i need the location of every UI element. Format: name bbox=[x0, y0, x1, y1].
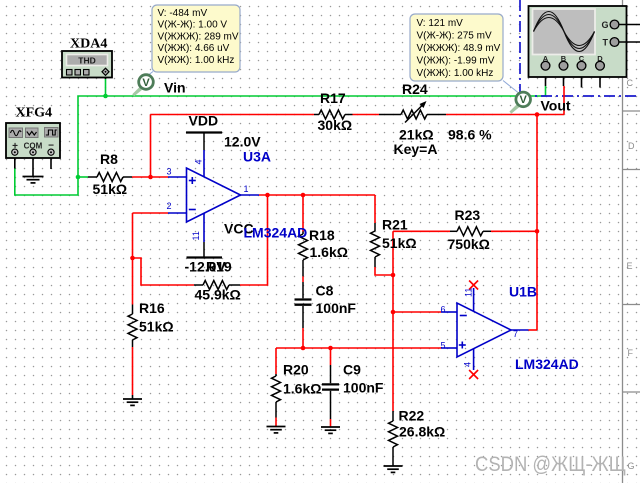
node: R16 junction bbox=[130, 256, 135, 261]
svg-text:V(ЖЖ): 4.66 uV: V(ЖЖ): 4.66 uV bbox=[158, 43, 230, 54]
capacitor C8 bbox=[295, 282, 312, 328]
svg-text:26.8kΩ: 26.8kΩ bbox=[399, 424, 445, 440]
svg-text:C8: C8 bbox=[316, 283, 334, 299]
svg-text:E: E bbox=[627, 261, 633, 271]
wire: Vout drop to U1B output bbox=[536, 115, 538, 331]
probe Vout bbox=[509, 92, 530, 114]
wire: R24 to scope B corner (Vout line) bbox=[446, 114, 564, 116]
probe Vin bbox=[132, 75, 153, 97]
wire: scope A green stub bbox=[545, 86, 547, 96]
wire: R23 right bbox=[491, 230, 537, 232]
wire: C9 bottom red bbox=[330, 419, 332, 427]
svg-text:V(ЖЖ): -1.99 mV: V(ЖЖ): -1.99 mV bbox=[417, 56, 495, 67]
wire: XDA4 black stub bbox=[105, 75, 107, 79]
wire: pin5 line bbox=[276, 347, 441, 349]
wire: XFG4 COM stub bbox=[32, 155, 34, 177]
svg-text:Key=A: Key=A bbox=[394, 141, 438, 157]
wire: scope B red riser bbox=[563, 86, 565, 115]
svg-text:1.6kΩ: 1.6kΩ bbox=[310, 244, 348, 260]
svg-text:R21: R21 bbox=[382, 217, 408, 233]
svg-text:V: V bbox=[520, 94, 528, 106]
resistor R23 bbox=[450, 227, 491, 236]
ERC X marker bottom U1B bbox=[469, 370, 478, 379]
potentiometer R24 bbox=[379, 101, 446, 123]
wire: pin2 down left rail bbox=[132, 213, 134, 305]
resistor R18 bbox=[299, 232, 308, 277]
wire: R8 right red to pin3 junction bbox=[132, 176, 168, 178]
wire: R8 left green stub bbox=[78, 176, 88, 178]
svg-text:51kΩ: 51kΩ bbox=[382, 235, 417, 251]
wire: R19 right to output riser bbox=[240, 195, 268, 285]
ground R22 bbox=[384, 466, 403, 472]
wire: C9 top red bbox=[330, 348, 332, 365]
svg-text:C: C bbox=[627, 78, 634, 88]
svg-text:750kΩ: 750kΩ bbox=[448, 236, 490, 252]
svg-text:R22: R22 bbox=[399, 408, 425, 424]
wire: top line to R17 bbox=[151, 114, 315, 116]
wire: scope B black stub bbox=[563, 70, 565, 86]
svg-text:51kΩ: 51kΩ bbox=[93, 181, 128, 197]
svg-text:12.0V: 12.0V bbox=[224, 134, 261, 150]
leader line Vin box bbox=[147, 72, 153, 77]
svg-text:V(ЖЖЖ): 289 mV: V(ЖЖЖ): 289 mV bbox=[158, 31, 239, 42]
svg-text:3: 3 bbox=[167, 167, 172, 177]
svg-text:R23: R23 bbox=[455, 207, 481, 223]
wire: mid rail vertical bbox=[392, 231, 394, 411]
ground C9 bbox=[321, 427, 340, 433]
node: green junction XDA4 bbox=[103, 94, 108, 99]
svg-text:5: 5 bbox=[441, 341, 446, 351]
node: output feedback junction bbox=[265, 193, 270, 198]
resistor R22 bbox=[389, 411, 398, 466]
svg-text:V: 121 mV: V: 121 mV bbox=[417, 18, 464, 29]
resistor R17 bbox=[314, 110, 353, 119]
svg-text:100nF: 100nF bbox=[343, 380, 384, 396]
resistor R19 bbox=[194, 281, 240, 290]
blue dash-dot selection boundary bbox=[520, 0, 640, 96]
svg-text:CSDN @ЖЩ-ЖЩ: CSDN @ЖЩ-ЖЩ bbox=[475, 453, 626, 476]
svg-text:LM324AD: LM324AD bbox=[244, 225, 308, 241]
wire: pin6 line bbox=[393, 311, 441, 313]
node: green junction R8 bbox=[76, 175, 81, 180]
VCC power symbol (negative rail) bbox=[187, 242, 223, 258]
wire: R20 bottom red bbox=[275, 418, 277, 427]
svg-text:1: 1 bbox=[244, 184, 249, 194]
svg-text:V: V bbox=[142, 77, 150, 89]
wire: R23 left bbox=[393, 230, 450, 232]
svg-text:R24: R24 bbox=[402, 81, 428, 97]
op-amp U3A bbox=[168, 150, 259, 242]
wire: scope A black stub bbox=[545, 70, 547, 86]
wire: scope C stub bbox=[581, 70, 583, 88]
svg-text:51kΩ: 51kΩ bbox=[139, 319, 174, 335]
wire: scope D stub bbox=[599, 70, 601, 88]
svg-text:VDD: VDD bbox=[189, 113, 219, 129]
svg-text:R17: R17 bbox=[320, 90, 346, 106]
svg-text:100nF: 100nF bbox=[316, 300, 357, 316]
wire: XDA4 green drop bbox=[105, 79, 107, 96]
svg-text:7: 7 bbox=[513, 329, 518, 339]
node: pin3 junction bbox=[148, 175, 153, 180]
wire: feedback riser from pin3 node bbox=[150, 115, 152, 178]
svg-text:XFG4: XFG4 bbox=[16, 106, 53, 121]
resistor R16 bbox=[128, 305, 137, 348]
svg-text:R8: R8 bbox=[100, 151, 118, 167]
svg-text:R18: R18 bbox=[309, 227, 335, 243]
svg-text:6: 6 bbox=[441, 305, 446, 315]
svg-text:LM324AD: LM324AD bbox=[515, 356, 579, 372]
svg-text:R19: R19 bbox=[206, 259, 232, 275]
svg-text:30kΩ: 30kΩ bbox=[318, 117, 353, 133]
node: C9 junction bbox=[328, 346, 333, 351]
svg-text:V(ЖЖЖ): 48.9 mV: V(ЖЖЖ): 48.9 mV bbox=[417, 43, 501, 54]
svg-text:XDA4: XDA4 bbox=[70, 37, 107, 52]
wire: R18 top red bbox=[302, 195, 304, 232]
measurement tooltip box Vin bbox=[152, 5, 240, 72]
resistor R20 bbox=[272, 374, 281, 418]
svg-text:U1B: U1B bbox=[509, 284, 537, 300]
ground R16 bbox=[123, 399, 142, 405]
svg-text:Vout: Vout bbox=[541, 98, 571, 114]
svg-text:U3A: U3A bbox=[243, 149, 271, 165]
svg-text:G: G bbox=[628, 461, 635, 471]
svg-text:V: -484 mV: V: -484 mV bbox=[158, 8, 208, 19]
resistor R21 bbox=[371, 223, 380, 267]
svg-text:4: 4 bbox=[194, 159, 204, 164]
sheet border line right bbox=[623, 0, 640, 483]
svg-text:V(Ж-Ж): 1.00 V: V(Ж-Ж): 1.00 V bbox=[158, 20, 228, 31]
node: R18 junction bbox=[301, 193, 306, 198]
wire: R16 bottom red bbox=[132, 347, 134, 395]
wire: R18-C8 red segment bbox=[302, 276, 304, 282]
resistor R8 bbox=[88, 173, 132, 182]
capacitor C9 bbox=[322, 365, 339, 419]
instrument XFG4 function generator bbox=[6, 123, 60, 158]
wire: C8 bottom red bbox=[302, 328, 304, 348]
measurement tooltip box Vout bbox=[410, 14, 503, 81]
svg-text:4: 4 bbox=[463, 362, 473, 367]
svg-text:45.9kΩ: 45.9kΩ bbox=[195, 287, 241, 303]
svg-text:Vin: Vin bbox=[164, 80, 186, 96]
wire: op-amp output line bbox=[259, 194, 375, 196]
wire: R21 bottom jog bbox=[375, 267, 393, 275]
svg-text:G: G bbox=[602, 20, 609, 30]
node: R21 junction bbox=[391, 273, 396, 278]
svg-text:1.6kΩ: 1.6kΩ bbox=[283, 381, 321, 397]
instrument oscilloscope bbox=[529, 6, 640, 77]
svg-text:V(Ж-Ж): 275 mV: V(Ж-Ж): 275 mV bbox=[417, 31, 492, 42]
svg-text:11: 11 bbox=[191, 231, 201, 240]
wire: jog to R19 bbox=[133, 258, 195, 285]
svg-text:R16: R16 bbox=[139, 300, 165, 316]
ground XFG4 COM bbox=[23, 177, 44, 183]
svg-text:F: F bbox=[628, 348, 634, 358]
svg-text:11: 11 bbox=[464, 288, 474, 297]
wire: R20 top bbox=[275, 348, 277, 374]
VDD power symbol bbox=[186, 133, 222, 151]
svg-text:THD: THD bbox=[78, 56, 95, 66]
svg-text:V(ЖЖ): 1.00 kHz: V(ЖЖ): 1.00 kHz bbox=[158, 55, 235, 66]
wire: XFG4 minus stub bbox=[50, 155, 52, 169]
wire: R17 to R24 bbox=[353, 114, 380, 116]
wire: XFG4 plus stub bbox=[14, 155, 16, 169]
node: C8 bottom junction bbox=[301, 346, 306, 351]
leader line Vout box bbox=[503, 81, 518, 93]
svg-text:D: D bbox=[628, 141, 635, 151]
svg-text:R20: R20 bbox=[283, 362, 309, 378]
node: pin6 junction bbox=[391, 310, 396, 315]
svg-text:2: 2 bbox=[167, 201, 172, 211]
wire: U1B output red bbox=[529, 329, 538, 331]
ground R20 bbox=[267, 427, 286, 433]
instrument XDA4 distortion analyzer bbox=[62, 51, 112, 78]
svg-text:C9: C9 bbox=[343, 362, 361, 378]
ERC X marker top U1B bbox=[469, 281, 478, 290]
node: R23 right junction bbox=[535, 229, 540, 234]
svg-text:T: T bbox=[603, 38, 609, 48]
svg-text:98.6 %: 98.6 % bbox=[448, 127, 492, 143]
node: Vout junction bbox=[535, 112, 540, 117]
svg-text:V(ЖЖ): 1.00 kHz: V(ЖЖ): 1.00 kHz bbox=[417, 68, 494, 79]
wire: pin2 red lead bbox=[133, 212, 169, 214]
op-amp U1B bbox=[441, 288, 529, 370]
wire: green Vin net from XFG4 bbox=[15, 96, 546, 195]
wire: R21 top riser bbox=[374, 195, 376, 223]
